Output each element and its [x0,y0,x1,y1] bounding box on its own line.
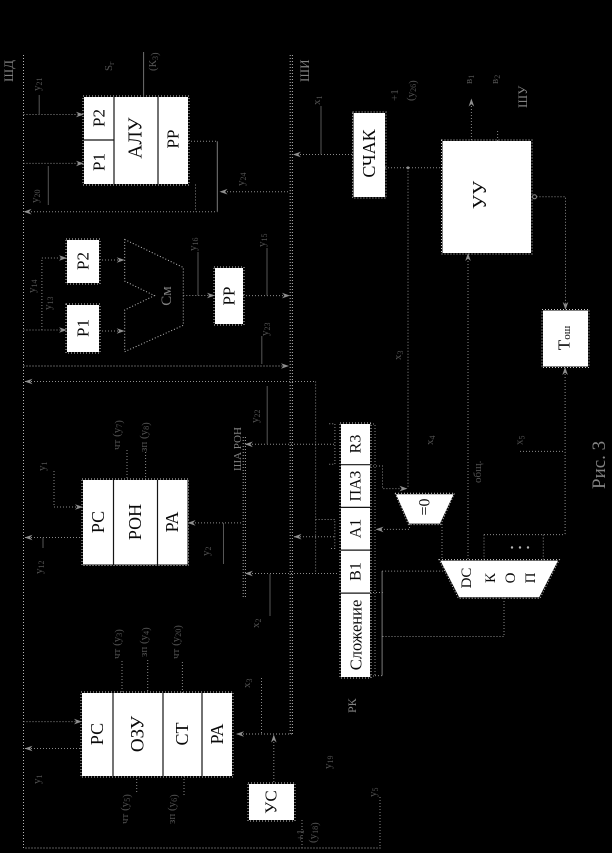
svg-text:ШД: ШД [1,60,16,82]
svg-text:зп (у4): зп (у4) [138,627,152,657]
svg-text:РА: РА [162,512,182,533]
box СЧАК [353,112,386,198]
box ОЗУ (РС ОЗУ СТ РА) [81,692,233,777]
box УУ [442,140,533,254]
wire ША РОН to РА (РОН) [189,522,243,524]
bracket А1 field [316,520,335,549]
svg-text:СЧАК: СЧАК [359,128,379,177]
decoder DC КОП (filled trapezoid) [439,560,559,599]
svg-text:ШИ: ШИ [297,59,312,82]
wire ШИ vertical feeder (x=315.6) [246,382,339,574]
svg-text:РР: РР [164,130,183,149]
svg-text:УУ: УУ [469,180,491,209]
box РК (R3 ПАЗ А1 В1 Сложение) [340,423,371,678]
wire leader у15 [266,248,268,296]
svg-text:=0: =0 [417,498,434,515]
wire АЛУ bottom output to ШД bus [25,185,217,212]
svg-text:ПАЗ: ПАЗ [348,471,365,502]
svg-text:А1: А1 [348,519,365,539]
wire х5 stub [520,450,565,452]
wire leader у16 [197,252,199,296]
box Р1 (of См) [66,304,100,353]
svg-text:Р1: Р1 [74,319,93,337]
svg-text:R3: R3 [348,435,365,454]
wire УС up to ШИ end with arrow [273,736,275,783]
svg-text:АЛУ: АЛУ [126,117,147,158]
svg-text:РК: РК [345,697,359,713]
wire АЛУ right output / РР link [188,141,290,191]
svg-text:чт (у7): чт (у7) [111,420,125,450]
wire у23 down to middle bus [261,336,263,364]
svg-text:УС: УС [262,790,281,813]
wire РК brace right [370,424,383,676]
svg-text:РР: РР [220,287,239,306]
svg-text:чт (у3): чт (у3) [111,629,125,659]
wire DC bottom output to РК [382,598,504,637]
wire leader х1 [320,106,322,155]
node dots ... [511,546,529,548]
wire См to РР [183,295,213,297]
svg-text:ША РОН: ША РОН [232,427,244,471]
adder См (outline funnel shape) [125,240,184,352]
svg-text:П: П [523,572,539,583]
svg-text:РС: РС [87,723,107,745]
svg-text:СТ: СТ [172,722,192,745]
wire РК Сложение right side (solid) [381,571,383,676]
wire leader (К3) on АЛУ top [143,52,145,97]
svg-text:чт (у5): чт (у5) [119,794,133,824]
wire РК ПАЗ to х3 line [370,466,405,489]
svg-text:ШУ: ШУ [515,85,530,108]
svg-text:В1: В1 [348,562,365,581]
wire СЧАК to ШИ bus [294,154,354,156]
bus horizontal middle (Y=366) into ШИ [24,365,288,367]
wire ОЗУ РС out to bus [25,748,82,750]
wire Р1 to См [99,330,123,332]
svg-text:Р2: Р2 [90,109,109,127]
bracket R3 field [329,424,335,465]
svg-text:ОЗУ: ОЗУ [128,715,149,752]
wire horizontal (Y=381.5) with arrow into left bus [25,381,316,383]
svg-text:зп (у6): зп (у6) [166,794,180,824]
wire =0 output to РК [377,524,410,529]
box Р2 (of См) [66,239,100,284]
svg-text:РС: РС [88,511,108,533]
wire РК bottom to bus (у5 line) [379,797,381,848]
svg-text:См: См [159,286,175,306]
bus ШИ (central vertical double dotted bus) [290,55,292,734]
wire СЧАК junction down (х3 line) [407,168,409,489]
bus ШД (left vertical data bus + bottom run) [24,55,382,848]
wire УУ right to Тош [533,195,537,199]
wire =0 right corner down to DC [441,524,443,560]
wire РР to ШИ bus [243,295,288,297]
wire СЧАК to УУ [385,167,443,169]
wire into АЛУ Р1 (y=163.4) [24,162,83,164]
comparator =0 (filled trapezoid) [395,493,455,524]
svg-text:Сложение: Сложение [347,600,366,671]
wire Тош bottom down to DC КОП level [484,368,565,560]
wire ШИ bus bottom turn to ОЗУ РА [237,733,292,735]
wire dotted down to ШИ end (x=261.5) [261,678,263,734]
wire УС to bottom bus [301,820,303,848]
wire leader у20 [47,166,49,205]
wire leader у12 [42,538,44,549]
box РОН (РС РОН РА) [82,479,189,566]
svg-text:Рис. 3: Рис. 3 [589,441,610,489]
box Тош [542,310,589,368]
wire УУ bottom to DC КОП (общ.) [467,255,469,560]
wire leader у22 [266,386,268,444]
wire leaders чт/зп РОН [127,450,146,480]
svg-text:+1: +1 [389,89,401,101]
box АЛУ (Р1 Р2 | АЛУ | РР) [83,96,189,185]
svg-text:общ.: общ. [472,460,484,483]
wire РОН РС to ШД bus [25,537,83,539]
wire into ОЗУ РС [24,721,81,723]
svg-text:РОН: РОН [125,504,145,540]
svg-text:(К3): (К3) [147,52,161,71]
wire bus to Р1/Р2 [24,258,66,330]
svg-text:Р2: Р2 [74,252,93,270]
wire into РОН РС [54,471,81,507]
wire leader у21 [38,95,40,115]
wire leaders чт/зп ОЗУ top [122,660,182,693]
svg-text:РА: РА [207,724,227,745]
wire УУ top up with arrow [471,100,497,141]
wire leader у2 [223,523,225,564]
wire Р2 to См [99,259,123,261]
box РР (of См) [214,267,244,325]
svg-text:+1: +1 [295,829,307,841]
box УС [248,783,295,821]
svg-text:О: О [503,572,519,583]
svg-text:DC: DC [459,568,475,589]
wire into АЛУ Р2 (y=114.5) [24,114,83,116]
svg-text:зп (у8): зп (у8) [138,422,152,452]
wire х2 stub down from В1 wire [269,574,271,616]
bus ША РОН (double dotted vertical) [243,437,245,597]
svg-text:Р1: Р1 [90,153,109,171]
wire leaders ОЗУ bottom [137,776,184,796]
svg-text:К: К [483,572,499,583]
